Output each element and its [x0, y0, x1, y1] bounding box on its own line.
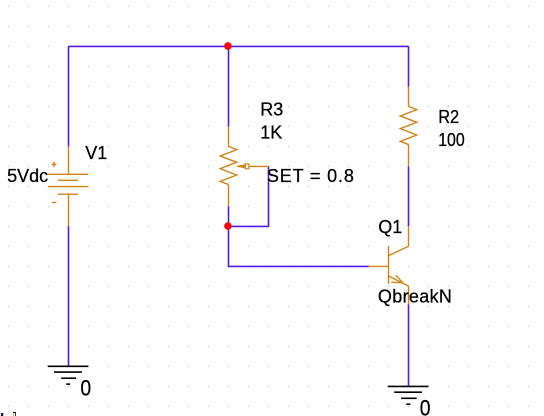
- wire Q1 emitter to right ground: [408, 304, 410, 386]
- wire V1 top vertical: [68, 46, 70, 146]
- svg-text:0: 0: [420, 396, 431, 416]
- wire wiper tap: right vertical and bottom horizontal: [229, 166, 269, 226]
- screen artifact fragments bottom-left: [1, 413, 2, 416]
- junction dot pot tap: [224, 222, 232, 230]
- svg-text:V1: V1: [85, 143, 107, 163]
- potentiometer R3: [220, 126, 268, 206]
- svg-text:0: 0: [80, 376, 91, 400]
- R3 wiper arrow: [236, 165, 245, 169]
- ground 0 right: [388, 386, 429, 404]
- wire top bus from V1 to R2: [69, 45, 409, 47]
- resistor R2: [400, 86, 416, 166]
- svg-text:QbreakN: QbreakN: [378, 286, 452, 306]
- wire R3 bottom to base corner and to Q1 base: [229, 206, 369, 266]
- svg-text:1K: 1K: [260, 122, 282, 142]
- svg-text:5Vdc: 5Vdc: [7, 166, 48, 186]
- wire R3 top vertical: [228, 46, 230, 126]
- junction dot top bus: [224, 42, 232, 50]
- ground 0 left: [48, 366, 89, 384]
- svg-text:100: 100: [438, 130, 465, 150]
- svg-text:R2: R2: [438, 107, 459, 127]
- wire R2 bottom to Q1 collector: [408, 166, 410, 226]
- svg-text:Q1: Q1: [378, 217, 402, 237]
- transistor Q1: [369, 226, 409, 304]
- wire R2 top vertical: [408, 46, 410, 86]
- svg-text:R3: R3: [260, 99, 283, 119]
- wire V1 bottom to left ground: [68, 226, 70, 366]
- source V1 battery symbol: [48, 146, 88, 226]
- svg-text:SET = 0.8: SET = 0.8: [267, 166, 354, 186]
